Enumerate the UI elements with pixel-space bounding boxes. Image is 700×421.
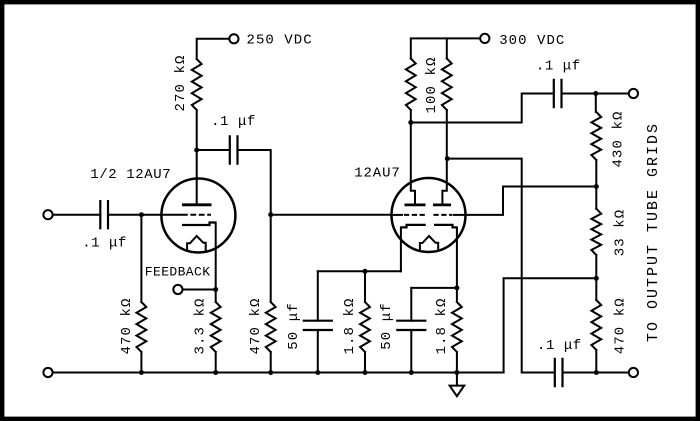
svg-text:.1 μf: .1 μf [537,338,582,354]
svg-text:1.8 kΩ: 1.8 kΩ [342,297,358,354]
svg-text:FEEDBACK: FEEDBACK [145,264,211,279]
svg-text:.1 μf: .1 μf [211,114,256,130]
svg-text:33 kΩ: 33 kΩ [613,209,629,257]
svg-text:470 kΩ: 470 kΩ [613,297,629,354]
svg-text:100 kΩ: 100 kΩ [424,56,440,113]
svg-text:TO OUTPUT TUBE GRIDS: TO OUTPUT TUBE GRIDS [645,122,662,342]
svg-text:430 kΩ: 430 kΩ [611,110,627,167]
svg-text:270 kΩ: 270 kΩ [173,54,189,111]
svg-text:50 μf: 50 μf [286,302,302,350]
svg-text:1.8 kΩ: 1.8 kΩ [434,297,450,354]
svg-text:250 VDC: 250 VDC [247,33,313,49]
svg-text:470 kΩ: 470 kΩ [119,297,135,354]
svg-text:1/2 12AU7: 1/2 12AU7 [90,167,171,183]
svg-text:470 kΩ: 470 kΩ [248,297,264,354]
svg-text:3.3 kΩ: 3.3 kΩ [193,297,209,354]
svg-text:.1 μf: .1 μf [536,59,581,75]
svg-text:300 VDC: 300 VDC [499,33,565,49]
svg-text:.1 μf: .1 μf [82,235,127,251]
svg-text:50 μf: 50 μf [379,302,395,350]
svg-text:12AU7: 12AU7 [354,166,401,182]
